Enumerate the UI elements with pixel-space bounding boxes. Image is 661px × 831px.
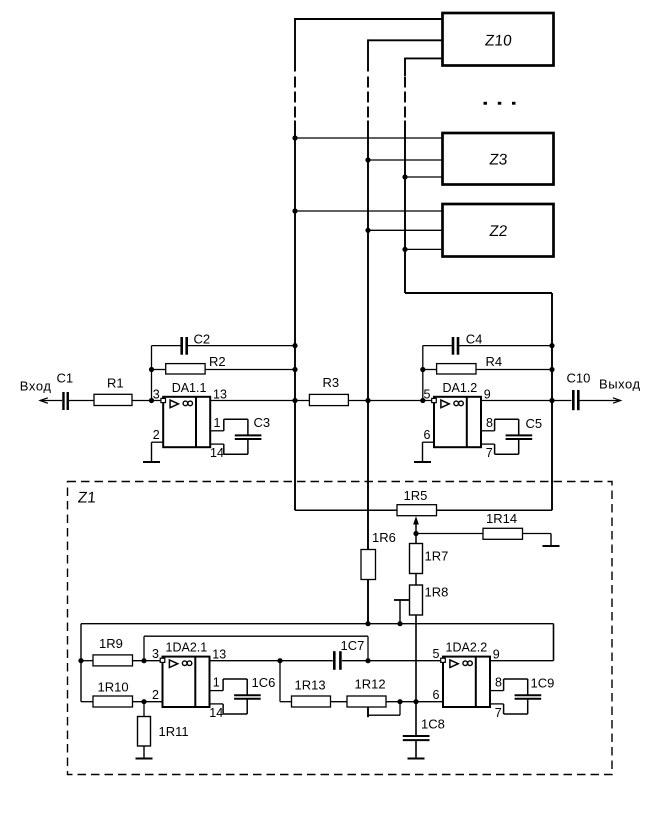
svg-text:1R5: 1R5: [404, 488, 428, 503]
svg-text:1R10: 1R10: [98, 680, 129, 695]
svg-text:1DA2.2: 1DA2.2: [446, 641, 488, 655]
svg-text:8: 8: [495, 676, 502, 690]
svg-text:1C8: 1C8: [421, 717, 445, 732]
svg-text:DA1.2: DA1.2: [443, 381, 478, 395]
svg-text:1R6: 1R6: [372, 530, 396, 545]
svg-text:Z1: Z1: [77, 490, 97, 507]
svg-text:1R9: 1R9: [99, 636, 123, 651]
svg-text:2: 2: [152, 688, 159, 702]
svg-text:5: 5: [424, 387, 431, 401]
svg-text:1R7: 1R7: [425, 549, 449, 564]
svg-text:C3: C3: [254, 415, 271, 430]
svg-text:6: 6: [424, 428, 431, 442]
svg-text:1C7: 1C7: [341, 638, 365, 653]
svg-text:8: 8: [486, 416, 493, 430]
svg-text:1R11: 1R11: [159, 724, 189, 739]
svg-text:C5: C5: [526, 416, 543, 431]
svg-text:13: 13: [213, 388, 227, 402]
svg-text:9: 9: [484, 388, 491, 402]
svg-text:Z2: Z2: [489, 223, 509, 240]
svg-text:6: 6: [433, 688, 440, 702]
svg-text:R2: R2: [209, 354, 226, 369]
svg-text:1DA2.1: 1DA2.1: [166, 641, 208, 655]
svg-text:R1: R1: [107, 376, 124, 391]
svg-text:1R14: 1R14: [486, 511, 517, 526]
svg-text:C10: C10: [567, 371, 591, 386]
svg-text:1R8: 1R8: [425, 585, 449, 600]
svg-text:1C6: 1C6: [252, 675, 276, 690]
svg-text:13: 13: [212, 647, 226, 661]
svg-text:C1: C1: [57, 371, 74, 386]
svg-text:7: 7: [486, 446, 493, 460]
svg-text:1C9: 1C9: [531, 676, 555, 691]
svg-text:2: 2: [153, 428, 160, 442]
svg-text:Выход: Выход: [599, 377, 641, 392]
svg-text:Z3: Z3: [489, 151, 509, 168]
svg-text:1: 1: [214, 416, 221, 430]
svg-text:14: 14: [209, 706, 223, 720]
svg-text:DA1.1: DA1.1: [172, 381, 207, 395]
svg-text:9: 9: [493, 647, 500, 661]
svg-text:5: 5: [433, 647, 440, 661]
svg-text:Вход: Вход: [20, 379, 52, 394]
svg-text:14: 14: [210, 446, 224, 460]
svg-text:7: 7: [495, 706, 502, 720]
svg-text:3: 3: [153, 387, 160, 401]
svg-text:1R13: 1R13: [295, 678, 326, 693]
svg-text:R3: R3: [323, 375, 340, 390]
svg-text:C4: C4: [466, 332, 483, 347]
svg-text:3: 3: [152, 647, 159, 661]
svg-text:1: 1: [213, 676, 220, 690]
svg-text:1R12: 1R12: [355, 677, 386, 692]
svg-text:Z10: Z10: [484, 33, 513, 50]
svg-text:R4: R4: [486, 354, 503, 369]
svg-text:C2: C2: [194, 332, 211, 347]
